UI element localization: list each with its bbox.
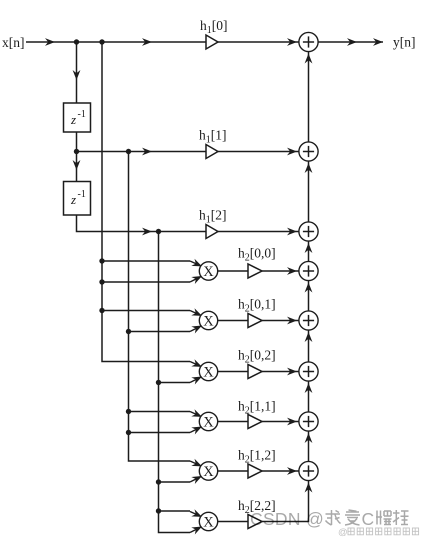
multiplier M00 (199, 262, 217, 280)
wire x[n-1] to h1[1] amplifier with arrowhead (77, 148, 207, 156)
wire M01 lower entry arrow (190, 326, 202, 334)
wire h2[2,2] up into summer S7 with arrowhead (262, 481, 312, 522)
op-amp gain h2[0,1] (248, 314, 262, 328)
svg-text:C: C (362, 509, 375, 529)
wire x[n] bus vertical with corner into M02 upper input (102, 42, 190, 362)
wire tap x[n-2] to M22 upper input (156, 508, 190, 513)
wire summer chain 471->422 with arrowhead (305, 431, 313, 461)
wire tap x[n] to M00 upper input (99, 258, 190, 263)
wire h1[0] to summer S0 with arrowhead (218, 38, 299, 46)
wire M22 to h2[2,2] amplifier (218, 521, 248, 523)
multiplier M22 (199, 512, 217, 530)
node y[n] output label (393, 35, 416, 50)
op-amp gain h2[1,2] (248, 464, 262, 478)
wire M01 upper entry arrow (190, 308, 202, 316)
wire M02 upper entry arrow (190, 359, 202, 367)
op-amp gain h1[0] (206, 35, 218, 49)
svg-text:X: X (203, 264, 214, 280)
wire M02 lower entry arrow (190, 377, 202, 385)
coefficient label h1[1] (199, 128, 227, 146)
node x[n] input label (2, 35, 25, 50)
wire x[n-2] bus vertical with corner into M22 lower input (159, 232, 191, 533)
wire h2[0,2] to summer S5 with arrowhead (262, 368, 299, 376)
wire tap x[n] to M01 upper input (99, 308, 190, 313)
node junction dot x[n-1] (74, 149, 79, 154)
node junction dot to x[n-1] bus (126, 149, 131, 154)
summer S0 (299, 32, 318, 51)
wire first delay output down to h1[1] row (76, 132, 78, 152)
wire h1[2] to summer S2 with arrowhead (218, 228, 299, 236)
wire tap x[n-1] to M01 lower input (126, 329, 190, 334)
op-amp gain h2[1,1] (248, 415, 262, 429)
wire junction down into second delay with arrowhead (73, 152, 81, 182)
node junction dot to delay chain (74, 39, 79, 44)
wire M11 upper entry arrow (190, 409, 202, 417)
svg-text:X: X (203, 365, 214, 381)
wire summer S0 to y[n] with arrowheads (318, 38, 383, 46)
summer S6 (299, 412, 318, 431)
multiplier M02 (199, 362, 217, 380)
wire summer chain 320->271 with arrowhead (305, 281, 313, 311)
wire summer chain 152->42 with arrowhead (305, 52, 313, 142)
wire h2[0,1] to summer S4 with arrowhead (262, 317, 299, 325)
coefficient label h2[1,2] (238, 448, 276, 466)
wire summer chain 372->320 with arrowhead (305, 330, 313, 362)
wire x[n-1] bus vertical with corner into M12 upper input (129, 152, 191, 462)
wire tap x[n-2] to M02 lower input (156, 380, 190, 385)
wire tap x[n] to M00 lower input (99, 279, 190, 284)
coefficient label h2[0,0] (238, 246, 276, 264)
summer S2 (299, 222, 318, 241)
node junction dot to x[n] bus (99, 39, 104, 44)
coefficient label h1[0] (200, 18, 228, 36)
op-amp gain h1[1] (206, 145, 218, 159)
wire h1[1] to summer S1 with arrowhead (218, 148, 299, 156)
watermark CSDN big (250, 509, 409, 529)
node junction dot to x[n-2] bus (156, 229, 161, 234)
coefficient label h2[1,1] (238, 399, 276, 417)
wire M00 lower entry arrow (190, 276, 202, 284)
summer S3 (299, 261, 318, 280)
wire M00 upper entry arrow (190, 259, 202, 267)
wire second delay output to h1[2] amplifier with arrowhead (77, 215, 207, 235)
multiplier M11 (199, 412, 217, 430)
wire M12 lower entry arrow (190, 476, 202, 484)
wire M11 lower entry arrow (190, 427, 202, 435)
wire tap x[n-1] to M11 upper input (126, 409, 190, 414)
wire tap down into first delay with arrowhead (73, 42, 81, 103)
wire M22 upper entry arrow (190, 509, 202, 517)
wire summer chain 271->232 with arrowhead (305, 241, 313, 261)
coefficient label h1[2] (199, 208, 227, 226)
svg-text:-1: -1 (78, 189, 86, 200)
svg-text:@: @ (338, 527, 348, 538)
summer S1 (299, 142, 318, 161)
multiplier M01 (199, 311, 217, 329)
multiplier M12 (199, 462, 217, 480)
wire M01 to h2[0,1] amplifier (218, 320, 248, 322)
svg-text:z: z (70, 192, 76, 207)
delay element z^-1 (second) (64, 182, 91, 216)
op-amp gain h2[0,0] (248, 264, 262, 278)
coefficient label h2[2,2] (238, 498, 276, 516)
op-amp gain h1[2] (206, 225, 218, 239)
wire M02 to h2[0,2] amplifier (218, 371, 248, 373)
wire M12 upper entry arrow (190, 459, 202, 467)
svg-text:X: X (203, 415, 214, 431)
op-amp gain h2[2,2] (248, 515, 262, 529)
svg-text:CSDN @: CSDN @ (250, 509, 324, 529)
summer S5 (299, 362, 318, 381)
wire summer chain 232->152 with arrowhead (305, 161, 313, 222)
wire h2[1,1] to summer S6 with arrowhead (262, 418, 299, 426)
wire h2[1,2] to summer S7 with arrowhead (262, 467, 299, 475)
watermark community small (338, 527, 419, 538)
wire M00 to h2[0,0] amplifier (218, 270, 248, 272)
delay element z^-1 (first) (64, 103, 91, 132)
wire x[n] to h1[0] amplifier with arrowheads (26, 38, 206, 46)
wire tap x[n-2] to M12 lower input (156, 479, 190, 484)
svg-text:x[n]: x[n] (2, 35, 25, 50)
svg-text:-1: -1 (78, 109, 86, 120)
summer S4 (299, 311, 318, 330)
svg-text:X: X (203, 515, 214, 531)
wire summer chain 422->372 with arrowhead (305, 381, 313, 412)
wire M12 to h2[1,2] amplifier (218, 470, 248, 472)
wire M22 lower entry arrow (190, 527, 202, 535)
wire tap x[n-1] to M11 lower input (126, 430, 190, 435)
svg-text:X: X (203, 464, 214, 480)
coefficient label h2[0,2] (238, 348, 276, 366)
svg-text:X: X (203, 314, 214, 330)
svg-text:y[n]: y[n] (393, 35, 416, 50)
wire h2[0,0] to summer S3 with arrowhead (262, 267, 299, 275)
wire M11 to h2[1,1] amplifier (218, 421, 248, 423)
coefficient label h2[0,1] (238, 297, 276, 315)
op-amp gain h2[0,2] (248, 365, 262, 379)
summer S7 (299, 461, 318, 480)
svg-text:z: z (70, 112, 76, 127)
